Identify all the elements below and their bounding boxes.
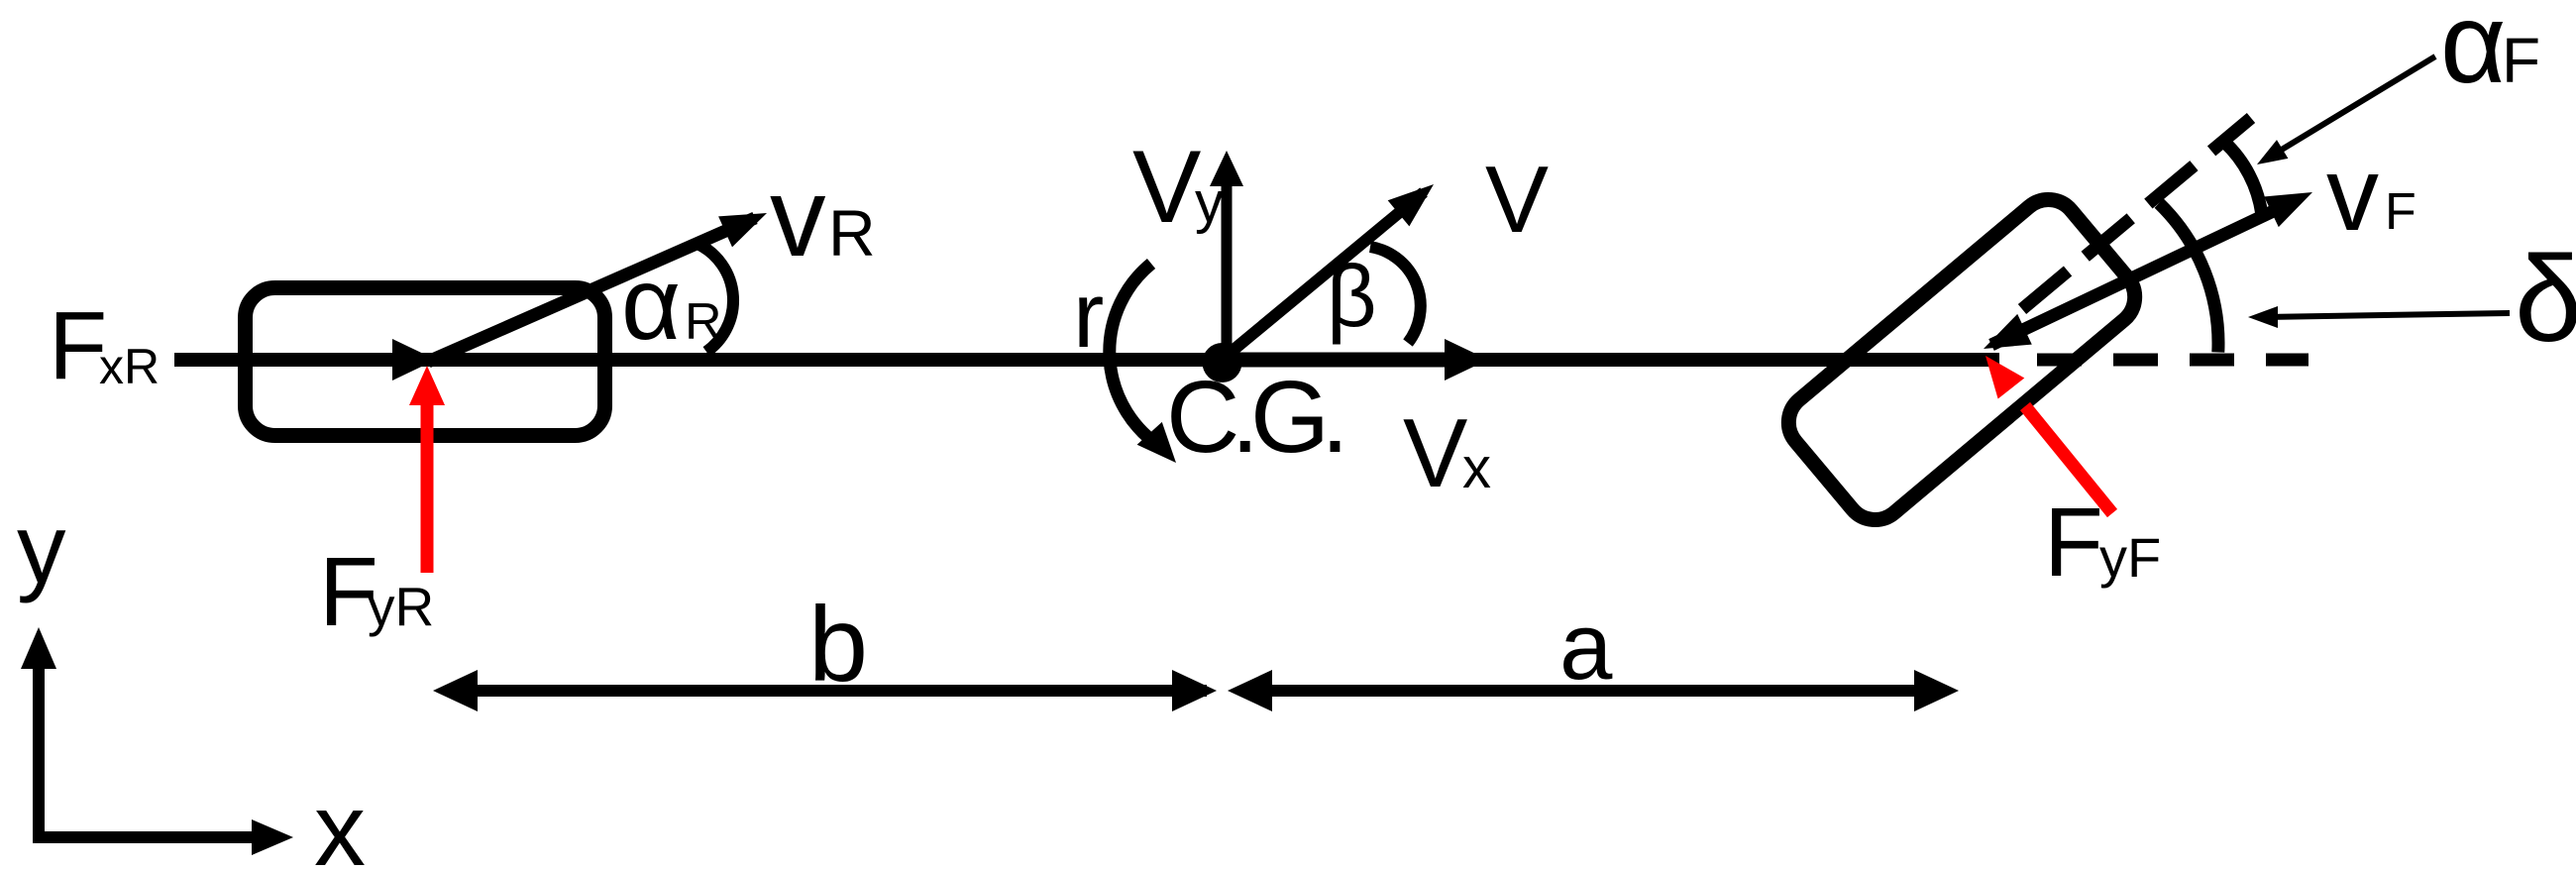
svg-text:x: x <box>1462 436 1491 500</box>
svg-text:R: R <box>828 196 876 270</box>
svg-text:C.G.: C.G. <box>1166 360 1341 474</box>
force arrow FyF (red, front lateral force) <box>1986 356 2112 513</box>
label y <box>17 493 66 603</box>
arrowhead FxR (force arrow tip at rear wheel center) <box>392 339 436 381</box>
svg-text:a: a <box>1559 594 1613 700</box>
svg-text:V: V <box>1132 130 1201 245</box>
label FyF <box>2044 488 2161 597</box>
dimension b (C.G. to rear axle) <box>433 670 1217 711</box>
label delta <box>2515 232 2576 368</box>
arc alphaF (front slip angle) <box>2224 142 2262 214</box>
vector Vx (longitudinal velocity, thick overlay + head) <box>1223 339 1488 381</box>
svg-text:b: b <box>808 584 868 704</box>
svg-text:F: F <box>2044 488 2103 597</box>
arrow pointer to delta arc <box>2248 306 2510 328</box>
svg-text:F: F <box>2502 25 2540 96</box>
svg-text:α: α <box>2440 0 2506 107</box>
label Vy <box>1132 130 1224 245</box>
svg-text:y: y <box>1195 170 1224 235</box>
arrow pointer to alphaF arc <box>2257 56 2435 164</box>
label alphaF <box>2440 0 2540 107</box>
arc alphaR (rear slip angle) <box>699 245 733 352</box>
label alphaR <box>621 247 722 362</box>
svg-text:v: v <box>2326 136 2379 253</box>
vector Vy (lateral velocity component) <box>1210 151 1243 360</box>
wire: dashed wheel heading axis <box>2022 118 2251 309</box>
label V <box>1485 147 1549 253</box>
label b <box>808 584 868 704</box>
svg-text:y: y <box>17 493 66 603</box>
svg-text:δ: δ <box>2515 232 2576 368</box>
svg-text:xR: xR <box>99 339 160 394</box>
label C.G. <box>1166 360 1341 474</box>
coordinate axes x-y <box>21 627 293 855</box>
label vF <box>2326 136 2416 253</box>
arc delta (steer angle) <box>2159 203 2218 352</box>
label a <box>1559 594 1613 700</box>
label FxR <box>49 291 160 399</box>
vector vF (front wheel velocity, double headed) <box>1984 192 2312 349</box>
svg-text:x: x <box>314 773 366 871</box>
label FyR <box>319 537 434 646</box>
force arrow FyR (red, rear lateral force) <box>409 366 445 573</box>
node C.G. dot <box>1203 343 1242 382</box>
front wheel (steered) <box>1776 187 2147 531</box>
svg-text:r: r <box>1073 263 1104 367</box>
svg-text:R: R <box>685 293 722 351</box>
svg-text:yF: yF <box>2099 526 2161 589</box>
label vR <box>770 155 876 279</box>
label r <box>1073 263 1104 367</box>
arrow r (yaw rate, curved) <box>1110 264 1176 463</box>
vector V (velocity at C.G.) <box>1222 184 1434 360</box>
wire: main axle line from FxR to front wheel center <box>174 353 1999 367</box>
label x <box>314 773 366 871</box>
svg-text:yR: yR <box>368 576 434 637</box>
label Vx <box>1403 398 1491 507</box>
vector vR (rear wheel velocity) <box>428 213 767 362</box>
svg-text:V: V <box>1485 147 1549 253</box>
rear wheel <box>246 288 605 436</box>
svg-text:β: β <box>1327 247 1377 345</box>
arc beta (sideslip angle) <box>1370 247 1421 343</box>
wire: dashed horizontal reference line <box>2037 354 2308 367</box>
svg-text:V: V <box>1403 398 1467 507</box>
svg-text:v: v <box>770 155 826 279</box>
label beta <box>1327 247 1377 345</box>
svg-text:F: F <box>2385 183 2416 241</box>
dimension a (C.G. to front axle) <box>1228 670 1959 711</box>
svg-text:α: α <box>621 247 681 362</box>
